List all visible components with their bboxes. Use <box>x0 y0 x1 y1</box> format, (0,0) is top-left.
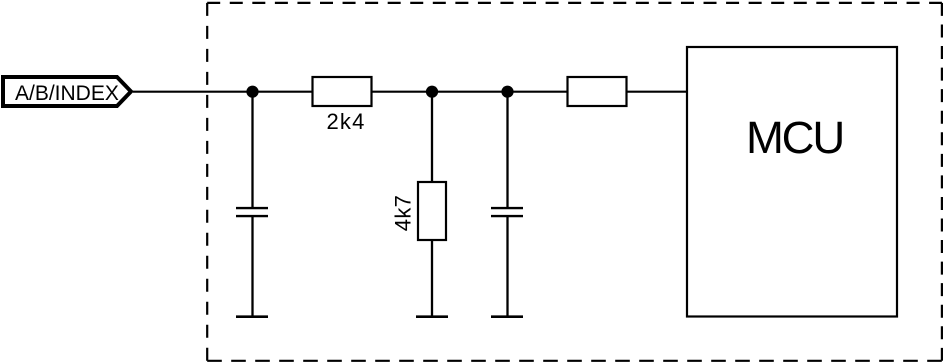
wire: R1 right pin to R2 left pin <box>372 91 567 93</box>
ground (C2) <box>491 315 523 318</box>
wire: C2 bottom plate down to ground <box>506 216 508 316</box>
capacitor C2 <box>491 208 523 216</box>
resistor R1 body <box>313 77 372 106</box>
capacitor C1 <box>236 208 268 216</box>
dashed enclosure border <box>207 3 942 361</box>
svg-text:4k7: 4k7 <box>391 195 416 231</box>
svg-text:A/B/INDEX: A/B/INDEX <box>15 82 119 105</box>
wire: R2 right pin to MCU input pin <box>627 91 688 93</box>
ground (R3) <box>416 315 448 318</box>
svg-text:MCU: MCU <box>746 112 843 163</box>
resistor R3 body <box>418 182 446 240</box>
wire: R3 bottom pin down to ground <box>431 240 433 316</box>
junction node A (C1 branch) <box>246 86 258 98</box>
ground (C1) <box>236 315 268 318</box>
wire: node B down to R3 top pin <box>431 92 433 182</box>
junction node C (C2 branch) <box>501 86 513 98</box>
net flag A/B/INDEX <box>3 77 131 106</box>
MCU U1 body <box>687 47 897 317</box>
svg-text:2k4: 2k4 <box>326 109 365 134</box>
wire: node A down to C1 top plate <box>251 92 253 207</box>
resistor R2 body <box>568 77 627 106</box>
wire: flag to R1 left pin <box>133 91 312 93</box>
wire: C1 bottom plate down to ground <box>251 216 253 316</box>
wire: node C down to C2 top plate <box>506 92 508 207</box>
junction node B (R3 branch) <box>426 86 438 98</box>
